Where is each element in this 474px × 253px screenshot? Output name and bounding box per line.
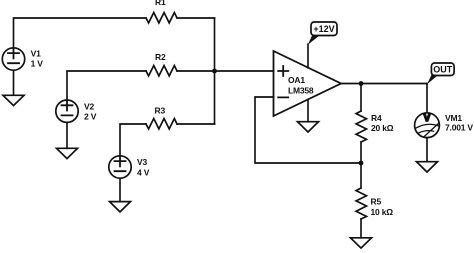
resistor R1 (146, 13, 177, 23)
voltage source V2 (56, 100, 78, 122)
wire vertical bus (214, 18, 216, 124)
wire R1 right to bus (177, 17, 214, 19)
wire op-amp V- to ground (307, 100, 309, 122)
voltmeter VM1 (415, 113, 440, 138)
svg-text:LM358: LM358 (288, 86, 314, 96)
wire V2 bottom to ground (66, 123, 68, 149)
ground (351, 238, 372, 248)
wire R5 bottom to ground (360, 219, 362, 238)
node feedback junction (359, 161, 364, 166)
wire op-amp output rail (341, 83, 427, 85)
svg-text:R3: R3 (155, 106, 166, 116)
wire R3 right to bus (177, 123, 214, 125)
svg-text:OA1: OA1 (288, 75, 305, 85)
svg-text:R1: R1 (155, 0, 166, 7)
wire R4 bottom to node (360, 142, 362, 163)
voltage source V1 (2, 48, 24, 70)
OA1 label (288, 75, 314, 96)
net flag OUT (427, 63, 454, 84)
wire node to R4 top (360, 84, 362, 112)
wire V3 bottom to ground (119, 178, 121, 201)
resistor R2 (146, 66, 177, 76)
svg-text:R2: R2 (155, 52, 166, 62)
wire V3 top to R3 left (120, 124, 146, 156)
resistor R3 (146, 118, 177, 128)
R5 value label (371, 197, 394, 218)
net flag +12V (308, 22, 337, 45)
wire V1 top to R1 left (14, 18, 147, 47)
svg-text:10 kΩ: 10 kΩ (371, 207, 394, 217)
ground (3, 95, 24, 105)
svg-text:V2: V2 (84, 101, 94, 111)
svg-text:R5: R5 (371, 197, 382, 207)
svg-text:7.001 V: 7.001 V (445, 122, 473, 132)
wire R2 right to op-amp + input (177, 70, 273, 72)
op-amp OA1 (274, 51, 342, 116)
wire V1 bottom to ground (13, 71, 15, 96)
svg-text:1 V: 1 V (31, 59, 44, 69)
wire node to R5 top (360, 163, 362, 188)
svg-text:R4: R4 (371, 113, 382, 123)
svg-text:20 kΩ: 20 kΩ (371, 123, 394, 133)
V1 value label (31, 49, 44, 69)
wire feedback to op-amp - input (255, 97, 361, 163)
svg-text:+12V: +12V (313, 24, 334, 34)
svg-text:V: V (424, 113, 431, 124)
voltage source V3 (109, 156, 131, 178)
svg-text:V3: V3 (137, 157, 147, 167)
wire output to voltmeter (426, 84, 428, 113)
ground (298, 122, 319, 132)
V2 value label (84, 101, 97, 121)
node summing junction (212, 69, 217, 74)
resistor R5 (356, 188, 366, 219)
wire V2 top to R2 left (67, 71, 146, 100)
ground (57, 148, 78, 158)
svg-text:OUT: OUT (433, 64, 453, 74)
wire +12V to op-amp V+ (307, 44, 309, 68)
ground (417, 162, 438, 172)
svg-text:4 V: 4 V (137, 167, 150, 177)
svg-text:V1: V1 (31, 49, 41, 59)
V3 value label (137, 157, 150, 177)
svg-text:2 V: 2 V (84, 112, 97, 122)
VM1 value label (445, 113, 473, 132)
R4 value label (371, 113, 394, 133)
node output to R4 (359, 81, 364, 86)
resistor R4 (356, 111, 366, 142)
wire voltmeter bottom to ground (426, 138, 428, 162)
ground (110, 202, 131, 212)
